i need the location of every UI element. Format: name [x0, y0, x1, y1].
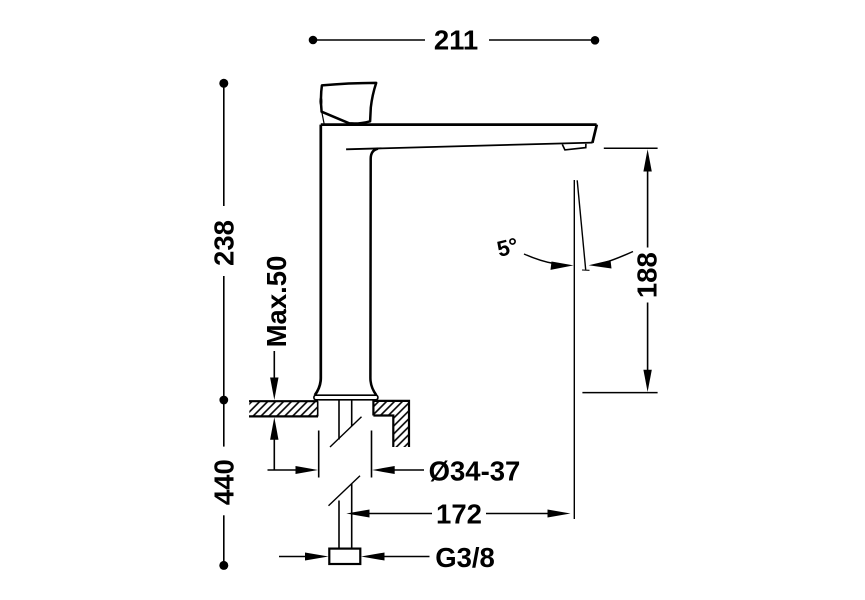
faucet handle lever — [321, 83, 376, 124]
dim Ø34-37 left arrowhead — [296, 466, 319, 474]
countertop left hatched block — [249, 401, 317, 416]
5 deg right leader arrowhead — [589, 260, 612, 268]
left vertical line segment 4 — [223, 515, 225, 565]
faucet body left edge with base flare — [315, 125, 321, 396]
dim Ø34-37 right arrowhead — [372, 466, 395, 474]
dim 188 bottom extension line — [582, 392, 657, 394]
pipe break slash upper — [330, 417, 362, 447]
shank pipe upper right line — [351, 401, 353, 427]
spout outlet nub — [562, 144, 586, 150]
slanted line end tick — [582, 269, 590, 271]
left vertical line segment 2 — [223, 276, 225, 400]
dim Ø34-37 right extension line — [371, 431, 373, 478]
left vertical dimension: bottom dot — [219, 561, 228, 570]
svg-text:Max.50: Max.50 — [261, 256, 292, 348]
dimension 211 top: left dot — [309, 36, 318, 45]
spout underside line — [346, 143, 592, 150]
shank pipe lower right line — [351, 484, 353, 549]
5 deg left leader line — [524, 254, 554, 264]
spout tip right edge — [592, 125, 596, 143]
Max.50 lower arrow line — [273, 436, 275, 471]
water stream slanted line (5 deg) — [577, 180, 586, 269]
dim 188 line upper segment — [647, 169, 649, 248]
shank pipe lower left line — [338, 501, 340, 549]
dim 188 top arrowhead (up) — [643, 149, 651, 171]
shank pipe upper left line — [338, 401, 340, 440]
dim 172 arrowhead (right, at stream line) — [548, 510, 571, 518]
dim Ø34-37 left extension line — [318, 431, 320, 478]
faucet base plate — [314, 395, 378, 400]
svg-text:211: 211 — [434, 25, 478, 56]
pipe break slash lower — [329, 476, 361, 506]
dim G3/8 right arrowhead — [361, 553, 385, 561]
dim G3/8 right line — [381, 556, 430, 558]
dimension 211 line left segment — [313, 39, 425, 41]
dim 188 line lower segment — [647, 303, 649, 373]
dim 172 line left segment — [367, 513, 433, 515]
Max.50 upper arrow line — [273, 351, 275, 381]
svg-text:238: 238 — [209, 220, 240, 266]
svg-text:188: 188 — [632, 252, 663, 298]
svg-text:5°: 5° — [494, 233, 520, 262]
G3/8 connector block — [329, 549, 360, 564]
left vertical dimension: top dot — [219, 79, 228, 88]
Max.50 lower arrowhead (up) — [270, 417, 278, 440]
countertop left block top border — [249, 400, 318, 402]
dim Ø34-37 right line — [392, 469, 425, 471]
countertop left block bottom border — [249, 415, 318, 417]
dim G3/8 left line — [279, 556, 310, 558]
svg-text:Ø34-37: Ø34-37 — [429, 456, 521, 487]
dim Ø34-37 left line — [268, 469, 300, 471]
handle rear skirt line — [322, 112, 324, 124]
dim 188 bottom arrowhead (down) — [643, 370, 651, 392]
5 deg right leader line — [605, 252, 633, 263]
svg-text:440: 440 — [209, 459, 240, 505]
left vertical line segment 1 — [223, 83, 225, 206]
faucet body top edge — [321, 123, 597, 126]
dimension 211 top: right dot — [591, 36, 600, 45]
Max.50 upper arrowhead (down) — [270, 378, 278, 401]
dim G3/8 left arrowhead — [305, 553, 329, 561]
dim 172 arrowhead (left, at pipe) — [346, 510, 369, 518]
svg-text:G3/8: G3/8 — [435, 542, 495, 573]
countertop right hatched block (L-shape) — [373, 401, 409, 447]
left vertical dimension: middle dot — [219, 396, 228, 405]
countertop right block borders — [373, 401, 409, 447]
handle pivot mark — [319, 97, 322, 106]
countertop left block right border — [317, 401, 319, 416]
dim 188 top extension line — [604, 147, 658, 149]
svg-text:172: 172 — [436, 499, 482, 530]
dimension 211 line right segment — [489, 39, 595, 41]
left vertical line segment 3 — [223, 400, 225, 447]
5 deg left leader arrowhead — [551, 262, 574, 270]
dim 172 line right segment — [486, 513, 552, 515]
water stream vertical line — [573, 180, 575, 519]
faucet body inner right edge with corner and base flare — [370, 149, 378, 396]
